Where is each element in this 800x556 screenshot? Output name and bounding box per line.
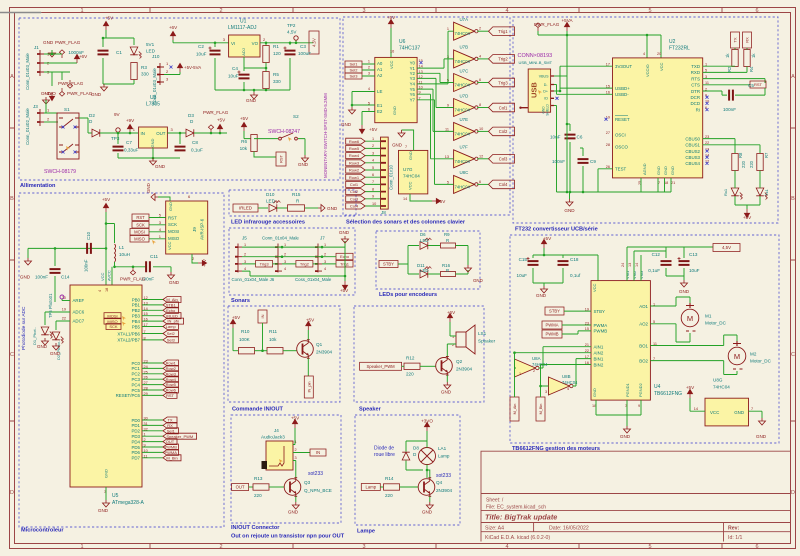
svg-text:+5V: +5V [240, 116, 249, 121]
svg-text:Row3: Row3 [166, 371, 177, 376]
label Sel3 [345, 73, 362, 79]
label SCK to ISP [132, 222, 149, 229]
svg-text:GND: GND [392, 143, 402, 148]
svg-text:13: 13 [445, 155, 449, 159]
resistor R5 [263, 72, 269, 89]
svg-text:D10: D10 [266, 192, 275, 197]
power +5V above L1 [104, 204, 109, 212]
label PWMB tb [542, 330, 562, 338]
svg-text:4,5V: 4,5V [312, 38, 317, 47]
inverter U7F 74HC04 [454, 150, 479, 168]
svg-text:RST: RST [136, 215, 145, 220]
svg-text:Speaker: Speaker [478, 339, 496, 344]
ic U4 TB6612FNG body [591, 281, 650, 401]
wire D3 to +5V [194, 132, 227, 134]
svg-text:LED: LED [420, 268, 429, 273]
ground TB6612 caps [541, 286, 548, 293]
J8 pin numbers [372, 137, 376, 206]
svg-text:6: 6 [755, 544, 758, 550]
section box Lampe [355, 415, 460, 525]
svg-text:4: 4 [368, 87, 370, 91]
svg-text:6: 6 [755, 8, 758, 14]
label Col3 [489, 155, 515, 164]
svg-text:+5V: +5V [306, 318, 315, 323]
svg-text:C18: C18 [570, 257, 579, 262]
svg-text:1: 1 [159, 234, 162, 239]
svg-text:M1: M1 [705, 314, 712, 319]
power +5V above C1 [104, 22, 109, 30]
svg-text:TEST: TEST [615, 167, 627, 172]
svg-text:PB2: PB2 [132, 308, 141, 313]
U5 port B hierarchical labels [163, 297, 184, 343]
wire C7 [118, 133, 180, 158]
label IN vertical [258, 310, 267, 323]
svg-text:+5V: +5V [686, 385, 695, 390]
U4 left pin names [585, 307, 607, 367]
svg-text:RST: RST [168, 216, 177, 221]
svg-text:4: 4 [284, 267, 286, 271]
capacitor C8 [175, 147, 186, 151]
connector USB_MINI-B body [528, 69, 550, 112]
svg-text:VM1: VM1 [625, 270, 630, 279]
wire S2 left [254, 138, 278, 140]
svg-text:Q_NPN_BCE: Q_NPN_BCE [304, 488, 332, 493]
svg-text:PWR_FLAG: PWR_FLAG [120, 277, 146, 282]
sonar connector pin numbers [244, 243, 326, 271]
section box IN/OUT Connector [231, 415, 341, 523]
power +3VO [50, 92, 55, 100]
power flag 3VO [59, 88, 64, 96]
svg-text:2: 2 [295, 448, 297, 452]
svg-text:20: 20 [657, 52, 661, 56]
svg-text:100nF: 100nF [35, 275, 48, 280]
svg-text:sot233: sot233 [308, 471, 323, 477]
svg-text:Commande IN/OUT: Commande IN/OUT [232, 407, 284, 413]
svg-text:C5: C5 [748, 83, 754, 88]
svg-text:U7C: U7C [460, 68, 469, 73]
svg-text:GND: GND [392, 106, 397, 115]
svg-text:PC2: PC2 [131, 372, 140, 377]
svg-text:VI: VI [231, 41, 235, 46]
testpoint TP5 Photo01 [60, 295, 64, 299]
svg-text:PWR_FLAG: PWR_FLAG [203, 110, 229, 115]
svg-text:GND: GND [734, 410, 744, 415]
svg-text:4: 4 [372, 159, 374, 163]
svg-text:U4: U4 [654, 384, 661, 390]
svg-text:SCK: SCK [109, 324, 118, 329]
svg-text:D: D [413, 452, 417, 457]
ground D2 [53, 343, 60, 350]
svg-text:Y0: Y0 [410, 60, 416, 65]
svg-text:VCC: VCC [710, 410, 719, 415]
wire +6V to U1 VI [173, 40, 229, 47]
svg-text:ATmega328-A: ATmega328-A [112, 500, 145, 506]
wire J3 pin1 [44, 100, 58, 113]
wire LED to R15 [277, 207, 288, 209]
svg-text:Id: 1/1: Id: 1/1 [728, 535, 743, 541]
svg-text:14: 14 [403, 197, 407, 201]
svg-text:DCD: DCD [690, 101, 700, 106]
svg-text:CBUS3: CBUS3 [685, 155, 700, 160]
svg-text:4,5V: 4,5V [722, 245, 731, 250]
svg-text:4,5V: 4,5V [287, 30, 297, 35]
resistor R11 [267, 348, 283, 354]
section box LED infrarouge [229, 190, 356, 216]
svg-text:Lamp: Lamp [166, 324, 177, 329]
svg-text:Col3: Col3 [350, 196, 359, 201]
capacitor C6 10nF [565, 135, 576, 139]
svg-text:GND: GND [564, 208, 575, 213]
wire +5V to R6 [244, 131, 254, 139]
svg-text:AGND: AGND [642, 163, 647, 175]
svg-text:3: 3 [244, 260, 246, 264]
wire usb vbus to rail [554, 75, 567, 77]
power flag FT232 [535, 23, 540, 31]
svg-text:1: 1 [372, 137, 374, 141]
label M_Ain [510, 397, 519, 421]
svg-text:GND: GND [155, 164, 166, 169]
wire J4 pin1 to +5V [293, 428, 295, 445]
wire LS1 to Q2 collector [447, 344, 456, 356]
switch S2 SWCH-08247 [279, 133, 298, 140]
resistor R2 1k [732, 50, 738, 67]
svg-text:R12: R12 [406, 356, 415, 361]
ground at U6 E1 [349, 107, 356, 114]
svg-text:R: R [446, 238, 449, 243]
svg-text:C4: C4 [232, 66, 238, 71]
wire R7 to Tx1 [759, 171, 761, 189]
svg-text:Col2: Col2 [499, 129, 508, 134]
wire J1 pin2 [44, 62, 77, 64]
svg-text:Col1: Col1 [499, 105, 508, 110]
svg-text:C12: C12 [652, 252, 661, 257]
svg-text:USBD-: USBD- [615, 92, 629, 97]
svg-text:BIN1: BIN1 [594, 356, 604, 361]
svg-text:7: 7 [372, 180, 374, 184]
transistor Q1 2N3904 [297, 340, 314, 359]
capacitor C4 [239, 75, 250, 79]
label Sel1 [345, 61, 362, 67]
svg-text:PWR_FLAG: PWR_FLAG [55, 40, 81, 45]
svg-text:120: 120 [273, 51, 281, 56]
svg-text:Row3: Row3 [349, 160, 360, 165]
svg-text:A: A [791, 74, 795, 80]
svg-text:74HC04: 74HC04 [455, 31, 471, 36]
svg-text:Lamp: Lamp [366, 485, 377, 490]
svg-text:Echo: Echo [166, 308, 176, 313]
wire BO1 to M2 [650, 335, 737, 346]
svg-text:+5V: +5V [105, 16, 114, 21]
svg-text:Row1: Row1 [166, 361, 177, 366]
photodiode D2 [52, 332, 64, 344]
svg-text:2N3904: 2N3904 [436, 488, 453, 493]
wire U5 gnd [105, 487, 107, 500]
svg-text:TX: TX [167, 418, 172, 423]
label OUT [232, 484, 249, 491]
svg-text:ADJ: ADJ [241, 48, 246, 56]
svg-text:J1: J1 [34, 45, 39, 50]
wire IN label down [262, 323, 264, 351]
svg-text:C3: C3 [300, 44, 306, 49]
wire TX label to R2 [734, 48, 736, 50]
svg-text:ID: ID [544, 97, 548, 101]
svg-text:D8: D8 [413, 446, 419, 451]
svg-text:24: 24 [621, 263, 625, 267]
ground U8G [759, 418, 766, 425]
svg-text:U7E: U7E [460, 117, 469, 122]
wire +5V to R10 [233, 328, 238, 351]
svg-text:R10: R10 [241, 329, 250, 334]
svg-text:C: C [791, 352, 795, 358]
svg-text:MISO: MISO [107, 319, 117, 324]
svg-text:GND: GND [168, 202, 173, 211]
svg-text:Photodiode sur ADC: Photodiode sur ADC [21, 306, 27, 350]
svg-text:SWCH-08179: SWCH-08179 [44, 169, 76, 175]
svg-text:PD7: PD7 [131, 456, 140, 461]
svg-text:C6: C6 [577, 135, 583, 140]
wire U8B out to BIN1 [573, 359, 592, 386]
svg-text:GND: GND [98, 508, 109, 513]
capacitor C7 [113, 147, 124, 151]
ground speaker [444, 382, 451, 389]
U5 port C wires [142, 363, 163, 395]
svg-text:R14: R14 [385, 476, 394, 481]
svg-text:C11: C11 [150, 254, 159, 259]
resistor R12 [404, 363, 420, 369]
svg-text:J9: J9 [192, 227, 197, 232]
svg-text:GND: GND [441, 390, 452, 395]
svg-text:100uF: 100uF [298, 51, 311, 56]
svg-text:0,1uF: 0,1uF [648, 268, 660, 273]
resistor R6 [251, 135, 257, 152]
section box Microcontroleur [19, 193, 224, 527]
svg-text:Q1: Q1 [316, 342, 323, 347]
svg-text:LED: LED [420, 238, 429, 243]
svg-text:3: 3 [166, 77, 169, 82]
LED D6 [420, 238, 432, 250]
resistor R14 [384, 484, 400, 490]
svg-text:14: 14 [694, 407, 698, 411]
resistor R8 220 [732, 154, 738, 171]
svg-text:A: A [10, 74, 14, 80]
resistor R7 220 [757, 154, 763, 171]
svg-text:+5V: +5V [369, 127, 378, 132]
svg-text:C14: C14 [61, 275, 70, 280]
power +5V-5VA [178, 64, 183, 72]
power +5V J4 [293, 420, 298, 428]
svg-text:U8B: U8B [562, 374, 571, 379]
svg-text:GND: GND [679, 289, 690, 294]
wire +5V to U6 VCC [390, 28, 392, 57]
svg-text:R5: R5 [273, 72, 279, 77]
svg-text:AIN1: AIN1 [594, 345, 604, 350]
svg-text:Motor_DC: Motor_DC [750, 359, 772, 364]
label RST vertical [276, 152, 286, 166]
wire C12 C13 gnd [666, 268, 684, 280]
svg-text:File: EC_system.kicad_sch: File: EC_system.kicad_sch [486, 505, 546, 511]
svg-text:R8: R8 [738, 152, 743, 158]
ground above U7G [398, 130, 405, 137]
svg-text:IN: IN [141, 131, 145, 136]
svg-text:PD0: PD0 [131, 418, 140, 423]
svg-text:OUT: OUT [236, 485, 245, 490]
svg-text:AREF: AREF [73, 298, 85, 303]
svg-text:Col1: Col1 [350, 182, 359, 187]
wire D2 to U3 IN [100, 132, 138, 134]
svg-text:1k: 1k [725, 53, 730, 58]
svg-text:PWMA: PWMA [594, 323, 608, 328]
svg-text:10nF: 10nF [550, 135, 561, 140]
svg-text:Lampe: Lampe [357, 529, 375, 535]
wires Sel to U6 [362, 64, 375, 76]
svg-text:2: 2 [479, 27, 481, 31]
svg-text:R: R [296, 199, 300, 204]
svg-text:8: 8 [479, 103, 481, 107]
svg-text:Sel1: Sel1 [167, 428, 176, 433]
wires ISP labels [149, 218, 166, 239]
regulator U1 LM1117-ADJ body [229, 35, 260, 57]
wire 3V3OUT left [560, 66, 613, 91]
svg-text:74HC04: 74HC04 [455, 184, 471, 189]
svg-text:U7A: U7A [460, 17, 469, 22]
svg-text:4: 4 [244, 267, 246, 271]
ground above J9 [151, 194, 158, 201]
svg-text:GND: GND [620, 434, 631, 439]
svg-text:5: 5 [159, 213, 162, 218]
svg-text:2: 2 [533, 369, 535, 373]
svg-text:Speaker_PWM: Speaker_PWM [367, 364, 396, 369]
wire TEST gnd [598, 169, 613, 192]
switch S1 SWCH-08179 [57, 113, 79, 159]
label PWMA tb [542, 321, 562, 329]
svg-text:Date: 16/05/2022: Date: 16/05/2022 [549, 526, 589, 532]
svg-text:6: 6 [479, 78, 481, 82]
svg-text:PWMA: PWMA [545, 323, 558, 328]
svg-text:sot233: sot233 [436, 473, 451, 479]
svg-text:IN: IN [316, 450, 320, 455]
svg-text:2N3904: 2N3904 [456, 367, 473, 372]
svg-text:GND: GND [41, 91, 52, 96]
svg-text:5: 5 [648, 544, 651, 550]
svg-text:CONN×08193: CONN×08193 [518, 53, 553, 59]
usb gnd wire [554, 106, 570, 193]
svg-text:MISO: MISO [168, 236, 180, 241]
svg-text:4: 4 [567, 387, 569, 391]
svg-text:Row6: Row6 [349, 139, 360, 144]
wire PWMB [562, 331, 591, 334]
svg-text:GND: GND [246, 98, 257, 103]
label IN out [310, 449, 326, 456]
capacitor C11 100nF [146, 261, 150, 272]
svg-text:MOSI: MOSI [134, 229, 145, 234]
power +6V at U1 [171, 32, 176, 40]
svg-text:1: 1 [324, 243, 326, 247]
wire R15 to gnd [305, 207, 318, 209]
wire R14 to Q4 [400, 486, 419, 488]
U5 port C pin names [116, 360, 148, 399]
svg-text:Out on rejoute un transistor n: Out on rejoute un transistor npn pour OU… [231, 534, 345, 540]
ground below U5 [103, 500, 110, 507]
wire caps to gnd [533, 268, 563, 286]
frame row letters [10, 74, 795, 496]
svg-text:RESET: RESET [615, 117, 630, 122]
svg-text:IN_pfn: IN_pfn [167, 319, 179, 324]
svg-text:Trig3: Trig3 [260, 261, 270, 266]
svg-text:2: 2 [263, 37, 266, 42]
U5 port B wires [142, 300, 163, 340]
svg-text:LEDs pour encodeurs: LEDs pour encodeurs [379, 292, 437, 298]
photodiode D1 [41, 327, 53, 339]
svg-text:GND: GND [339, 230, 350, 235]
svg-text:74HC137: 74HC137 [399, 46, 420, 52]
svg-text:RXD: RXD [691, 70, 700, 75]
capacitor C9 100nF [578, 159, 589, 163]
power flag J1 pin3 [67, 80, 72, 88]
usb pin stubs [521, 76, 555, 108]
svg-text:PC1: PC1 [131, 366, 140, 371]
svg-text:13: 13 [628, 263, 632, 267]
svg-text:Conn_01x10: Conn_01x10 [389, 165, 394, 190]
svg-text:21: 21 [671, 181, 675, 185]
svg-text:PC5: PC5 [131, 388, 140, 393]
svg-text:SCK: SCK [168, 222, 177, 227]
svg-text:D2: D2 [89, 113, 95, 118]
svg-text:M: M [687, 314, 693, 323]
svg-text:GND: GND [146, 183, 151, 193]
connector J5 Conn_01x04_Male [235, 244, 242, 273]
diode D3 [186, 129, 194, 137]
svg-text:3: 3 [171, 127, 174, 132]
svg-text:Trig1: Trig1 [498, 29, 508, 34]
inverter U7D 74HC04 [454, 99, 479, 117]
connector J9 AVR-ISP-6 body [166, 201, 208, 254]
ground below C1 [101, 84, 108, 91]
svg-text:4: 4 [479, 54, 481, 58]
svg-text:GND: GND [50, 351, 61, 356]
svg-text:3: 3 [295, 456, 297, 460]
wire +5V down to VCC [84, 212, 147, 285]
svg-text:PC4: PC4 [131, 382, 140, 387]
svg-text:VM2: VM2 [632, 270, 637, 279]
inverter U7E 74HC04 [454, 122, 479, 140]
svg-text:1: 1 [368, 59, 370, 63]
wire lamp bottom rail [406, 461, 427, 479]
svg-text:R9: R9 [444, 232, 450, 237]
svg-text:RST: RST [754, 82, 763, 87]
wire C6 [567, 100, 570, 192]
svg-text:MOSI: MOSI [168, 229, 179, 234]
svg-text:U5: U5 [112, 493, 119, 499]
capacitor C3 [285, 51, 296, 55]
svg-text:SWCH-08247: SWCH-08247 [268, 129, 300, 135]
ground at J1 pin1 [49, 50, 56, 57]
svg-text:+5V: +5V [437, 199, 446, 204]
svg-text:Speaker_PWM: Speaker_PWM [166, 434, 193, 439]
label Col4 [489, 180, 515, 189]
svg-text:PB1: PB1 [132, 303, 141, 308]
wire C5 to RST [735, 88, 765, 95]
gate U8G 74HC04 power body [705, 398, 749, 426]
svg-text:0,33uF: 0,33uF [124, 148, 138, 153]
J8 row/col hierarchical labels [346, 138, 365, 209]
label RX vertical [743, 32, 752, 48]
wire U7E output [477, 130, 488, 132]
svg-text:10: 10 [372, 202, 376, 206]
wire AO1 to M1 [650, 297, 690, 306]
svg-text:PWMB: PWMB [164, 445, 177, 450]
label MISO overlay [104, 318, 121, 324]
U5 port D hierarchical labels [163, 417, 197, 461]
